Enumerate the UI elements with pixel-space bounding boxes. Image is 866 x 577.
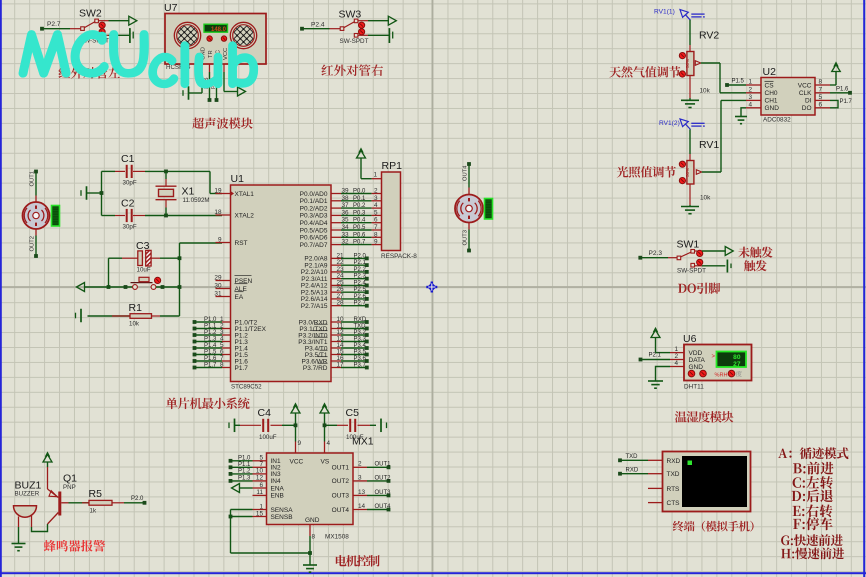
svg-text:11: 11 xyxy=(256,489,263,496)
svg-text:P1.2: P1.2 xyxy=(238,469,251,475)
svg-text:RXD: RXD xyxy=(354,317,367,323)
svg-text:P0.0: P0.0 xyxy=(353,189,366,195)
svg-text:XTAL2: XTAL2 xyxy=(235,212,255,219)
svg-text:C5: C5 xyxy=(346,407,360,419)
svg-text:P2.1: P2.1 xyxy=(649,353,662,359)
svg-text:SW1: SW1 xyxy=(677,239,700,251)
svg-text:P0.5: P0.5 xyxy=(353,225,366,231)
svg-text:VCC: VCC xyxy=(798,82,812,89)
wire MX GND to ground xyxy=(309,536,311,565)
svg-text:C2: C2 xyxy=(121,198,135,210)
svg-text:P3.4: P3.4 xyxy=(354,343,367,349)
U6 pin stubs xyxy=(670,346,684,367)
origin crosshair marker xyxy=(426,282,437,293)
svg-text:SW-SPDT: SW-SPDT xyxy=(340,38,369,45)
svg-text:10uF: 10uF xyxy=(137,267,151,274)
svg-text:OUT1: OUT1 xyxy=(30,171,36,186)
svg-text:%RH: %RH xyxy=(715,372,728,378)
svg-text:TXD: TXD xyxy=(354,324,367,330)
wire oscillator bottom rail xyxy=(102,200,223,218)
ground terminal U7 xyxy=(183,86,189,100)
svg-text:BUZZER: BUZZER xyxy=(15,491,40,498)
virtual terminal (phone sim) xyxy=(648,452,751,512)
svg-text:U7: U7 xyxy=(164,2,178,14)
terminal arrow SW2 xyxy=(129,16,137,25)
svg-text:OUT4: OUT4 xyxy=(463,165,469,181)
svg-text:CH0: CH0 xyxy=(765,90,778,97)
svg-text:80: 80 xyxy=(733,354,741,361)
label hongwai-duiguan-zuo xyxy=(59,67,121,79)
svg-text:8: 8 xyxy=(312,534,316,541)
resistor R5 xyxy=(69,488,147,515)
svg-text:C1: C1 xyxy=(121,153,135,165)
adc U2 ADC0832 xyxy=(746,66,830,124)
U1 P1 pin wires with net labels xyxy=(193,316,231,369)
power terminal VCC rail xyxy=(291,404,300,442)
ultrasonic module U7 HCSR04 xyxy=(156,2,274,71)
svg-text:RESPACK-8: RESPACK-8 xyxy=(381,253,417,260)
svg-text:P1.5: P1.5 xyxy=(732,79,745,85)
motor M2 speed indicator xyxy=(485,199,493,220)
motor M1 speed indicator xyxy=(52,206,60,227)
svg-text:RST: RST xyxy=(235,240,248,247)
U6 display xyxy=(712,352,747,369)
svg-text:VCC: VCC xyxy=(290,459,304,466)
svg-text:7: 7 xyxy=(819,87,823,94)
svg-text:4: 4 xyxy=(327,440,331,447)
wire RV2 wiper to U2 CH0 xyxy=(701,63,746,93)
reset button xyxy=(84,277,180,289)
svg-text:P2.3: P2.3 xyxy=(354,274,367,280)
svg-text:P0.7: P0.7 xyxy=(353,240,366,246)
svg-text:3: 3 xyxy=(748,94,752,101)
svg-text:P1.7: P1.7 xyxy=(235,365,249,372)
ground RV2 xyxy=(681,98,699,108)
svg-text:39: 39 xyxy=(342,188,350,195)
ground RV1 xyxy=(681,205,699,214)
power terminal Q1 xyxy=(43,453,52,468)
wire SW1 lower throw xyxy=(702,265,725,267)
svg-text:P0.4/AD4: P0.4/AD4 xyxy=(300,220,328,227)
motor OUT3/OUT4 xyxy=(455,162,493,252)
svg-text:OUT4: OUT4 xyxy=(332,507,350,514)
U7 distance display xyxy=(204,24,228,32)
svg-text:P2.1: P2.1 xyxy=(354,260,367,266)
svg-text:1: 1 xyxy=(748,79,752,86)
svg-text:RXD: RXD xyxy=(626,467,639,473)
svg-text:IN4: IN4 xyxy=(271,478,282,485)
svg-text:P3.5: P3.5 xyxy=(354,350,367,356)
svg-text:1: 1 xyxy=(259,503,263,510)
svg-text:IN3: IN3 xyxy=(271,471,282,478)
capacitor C3 electrolytic xyxy=(122,240,160,274)
label dianji-kongzhi xyxy=(336,555,380,567)
label chufa xyxy=(744,260,767,271)
U1 P3 pin wires with net labels xyxy=(331,316,369,369)
svg-text:R5: R5 xyxy=(89,488,103,500)
svg-text:P1.3: P1.3 xyxy=(204,337,217,343)
svg-text:30pF: 30pF xyxy=(123,224,137,231)
svg-text:P2.2: P2.2 xyxy=(354,267,367,273)
wires OUT1-OUT4 xyxy=(367,462,391,512)
svg-text:4: 4 xyxy=(674,360,678,367)
sheet border bottom xyxy=(0,572,866,574)
svg-text:OUT1: OUT1 xyxy=(332,465,350,472)
svg-text:3: 3 xyxy=(374,195,378,202)
wire C3 left leg xyxy=(107,258,122,289)
svg-text:OUT3: OUT3 xyxy=(332,493,350,500)
svg-text:P1.7: P1.7 xyxy=(204,363,217,369)
svg-text:P1.5: P1.5 xyxy=(204,350,217,356)
svg-text:P1.1: P1.1 xyxy=(238,462,251,468)
svg-text:P2.6: P2.6 xyxy=(354,294,367,300)
svg-text:8: 8 xyxy=(374,231,378,238)
svg-text:10k: 10k xyxy=(129,321,140,328)
svg-text:4: 4 xyxy=(374,202,378,209)
origin axis lines xyxy=(431,0,433,577)
capacitor C4 xyxy=(240,407,296,441)
wire SW1 upper throw xyxy=(702,250,726,252)
svg-text:P1.6: P1.6 xyxy=(204,356,217,362)
svg-text:P0.4: P0.4 xyxy=(353,218,366,224)
svg-text:EA: EA xyxy=(235,294,244,301)
svg-text:P0.2: P0.2 xyxy=(353,203,366,209)
svg-text:OUT4: OUT4 xyxy=(375,504,392,510)
svg-text:38: 38 xyxy=(342,195,350,202)
svg-text:35: 35 xyxy=(342,217,350,224)
svg-text:32: 32 xyxy=(342,239,350,246)
svg-text:RTS: RTS xyxy=(667,486,681,493)
label hongwai-duiguan-you xyxy=(322,64,384,76)
sensor U6 DHT11 xyxy=(683,333,752,381)
microcontroller U1 STC89C52 xyxy=(231,173,332,390)
svg-text:SENSB: SENSB xyxy=(271,514,293,521)
svg-text:P1.7: P1.7 xyxy=(840,99,853,105)
ground terminal SW3 xyxy=(389,28,392,43)
crystal X1 xyxy=(156,186,210,205)
svg-text:CH1: CH1 xyxy=(765,98,778,105)
label fengmingqi-baojing xyxy=(44,540,106,552)
svg-text:OUT2: OUT2 xyxy=(332,478,350,485)
svg-text:OUT3: OUT3 xyxy=(375,490,392,496)
svg-text:RV1(1): RV1(1) xyxy=(654,9,675,16)
svg-text:TXD: TXD xyxy=(626,454,639,460)
svg-text:OUT3: OUT3 xyxy=(463,230,469,245)
svg-text:P1.4: P1.4 xyxy=(204,343,217,349)
svg-text:ADC0832: ADC0832 xyxy=(763,117,791,124)
switch SW1 xyxy=(638,239,706,275)
ground terminal SW1 xyxy=(727,260,731,273)
svg-text:P1.1: P1.1 xyxy=(204,324,217,330)
svg-text:27: 27 xyxy=(733,361,741,368)
svg-text:P3.2: P3.2 xyxy=(354,330,367,336)
svg-text:2: 2 xyxy=(358,461,362,468)
potentiometer RV2 xyxy=(679,30,719,99)
terminal arrow SW3 xyxy=(388,16,396,25)
svg-text:36: 36 xyxy=(342,209,350,216)
svg-text:RV1: RV1 xyxy=(699,139,719,151)
svg-text:C4: C4 xyxy=(258,407,272,419)
svg-text:U1: U1 xyxy=(231,173,245,185)
svg-text:>: > xyxy=(712,354,716,360)
svg-text:12: 12 xyxy=(256,475,264,482)
power terminal U6 VDD xyxy=(651,328,670,353)
svg-text:P2.3: P2.3 xyxy=(649,250,663,257)
svg-text:2: 2 xyxy=(374,188,378,195)
svg-text:OUT2: OUT2 xyxy=(375,475,392,481)
svg-text:P0.3/AD3: P0.3/AD3 xyxy=(300,213,328,220)
ground buzzer xyxy=(12,544,26,551)
svg-text:TXD: TXD xyxy=(667,471,680,478)
label danpianji-zuixiao-xitong xyxy=(166,397,250,409)
svg-text:3: 3 xyxy=(358,474,362,481)
svg-text:CS: CS xyxy=(765,82,775,89)
svg-text:6: 6 xyxy=(259,482,263,489)
wire U2 CH1 from RV1 wiper xyxy=(721,100,746,172)
svg-text:SENSA: SENSA xyxy=(271,507,294,514)
ground terminal R1 xyxy=(76,309,82,323)
svg-text:P2.5: P2.5 xyxy=(354,287,367,293)
buzzer BUZ1 xyxy=(14,480,42,528)
svg-text:P2.4: P2.4 xyxy=(354,280,367,286)
svg-text:9: 9 xyxy=(218,236,222,243)
wire SW3 lower throw xyxy=(368,34,389,36)
svg-text:P0.6: P0.6 xyxy=(353,232,366,238)
ground U6 xyxy=(648,381,663,388)
label zhongduan-moni-shouji xyxy=(673,521,754,532)
svg-text:STC89C52: STC89C52 xyxy=(231,383,262,390)
wire U2 GND to ground xyxy=(735,108,747,124)
svg-text:Q1: Q1 xyxy=(63,473,77,485)
svg-text:U6: U6 xyxy=(683,333,697,345)
svg-text:DI: DI xyxy=(805,98,812,105)
svg-text:P1.0: P1.0 xyxy=(204,317,217,323)
svg-text:GND: GND xyxy=(305,517,320,524)
terminal RV1(2) xyxy=(659,119,705,130)
terminal RV1(1) top xyxy=(654,9,705,21)
motor OUT1/OUT2 xyxy=(23,170,60,258)
svg-text:P3.7/RD: P3.7/RD xyxy=(303,365,328,372)
svg-text:P1.3: P1.3 xyxy=(238,476,251,482)
wire U2 DI DO to P1.7 xyxy=(830,99,853,108)
svg-text:P2.7: P2.7 xyxy=(354,301,367,307)
svg-text:148.0: 148.0 xyxy=(211,27,227,33)
svg-text:VCC: VCC xyxy=(223,48,229,60)
svg-text:DO: DO xyxy=(802,105,812,112)
svg-text:10: 10 xyxy=(256,468,264,475)
U6 indicator dots xyxy=(684,370,742,390)
svg-text:19: 19 xyxy=(214,187,222,194)
svg-text:13: 13 xyxy=(358,489,366,496)
wire buzzer right to Q1 collector xyxy=(32,524,48,532)
svg-text:P1.6: P1.6 xyxy=(836,87,849,93)
svg-text:P0.7/AD7: P0.7/AD7 xyxy=(300,242,328,249)
wire RV1 wiper xyxy=(702,171,721,173)
svg-text:2: 2 xyxy=(674,353,678,360)
switch SW3 xyxy=(300,9,368,45)
svg-text:U2: U2 xyxy=(763,66,777,78)
terminal arrow U7 VCC xyxy=(238,87,246,96)
svg-text:MX1508: MX1508 xyxy=(325,534,349,541)
sheet border left xyxy=(0,0,2,577)
svg-text:1: 1 xyxy=(373,172,377,179)
svg-text:SW-SPDT: SW-SPDT xyxy=(677,268,706,275)
svg-text:14: 14 xyxy=(358,503,366,510)
svg-text:P3.3: P3.3 xyxy=(354,337,367,343)
potentiometer RV1 xyxy=(679,139,719,205)
terminal arrow SW1 xyxy=(725,247,733,256)
label wei-chufa xyxy=(738,247,772,258)
svg-text:P3.6: P3.6 xyxy=(354,356,367,362)
svg-text:6: 6 xyxy=(374,217,378,224)
svg-text:P0.2/AD2: P0.2/AD2 xyxy=(300,205,328,212)
wire RST rail xyxy=(178,243,222,316)
ground terminal oscillator xyxy=(81,186,87,200)
svg-text:15: 15 xyxy=(256,510,264,517)
svg-text:GND: GND xyxy=(765,105,780,112)
wire SW3 upper throw xyxy=(368,20,389,22)
label wenshidu-mokuai xyxy=(675,411,734,423)
motor driver MX1 MX1508 xyxy=(253,436,374,541)
svg-text:RXD: RXD xyxy=(667,458,681,465)
U1 left pin stubs XTAL RST PSEN ALE EA xyxy=(214,187,234,297)
svg-text:50%: 50% xyxy=(685,168,690,177)
ground terminal SW2 xyxy=(130,28,133,43)
svg-text:P0.1: P0.1 xyxy=(353,196,366,202)
wire P1.5 to U2 CS xyxy=(725,79,746,87)
wire U2 CLK to P1.6 xyxy=(830,87,852,95)
wire P2.1 to U6 DATA xyxy=(639,353,670,362)
wire TXD to terminal RXD xyxy=(618,454,648,462)
capacitor C1 xyxy=(115,153,145,187)
svg-text:30: 30 xyxy=(214,282,222,289)
wire RV1(2) to RV1 xyxy=(689,130,691,161)
svg-text:11.0592M: 11.0592M xyxy=(183,197,210,204)
svg-text:P0.3: P0.3 xyxy=(353,210,366,216)
svg-text:2: 2 xyxy=(748,87,752,94)
svg-text:8: 8 xyxy=(220,362,224,369)
svg-text:MX1: MX1 xyxy=(352,436,374,448)
svg-text:9: 9 xyxy=(374,239,378,246)
svg-text:CTS: CTS xyxy=(667,500,681,507)
label command list A-H xyxy=(778,447,848,559)
svg-text:OUT2: OUT2 xyxy=(30,236,36,251)
svg-text:SW2: SW2 xyxy=(79,8,102,20)
svg-text:P2.7: P2.7 xyxy=(47,21,61,28)
svg-text:9: 9 xyxy=(298,440,302,447)
svg-text:P2.4: P2.4 xyxy=(311,22,325,29)
svg-text:5: 5 xyxy=(374,209,378,216)
switch SW2 xyxy=(40,8,109,45)
svg-text:18: 18 xyxy=(214,209,222,216)
ground terminal C5 xyxy=(370,419,387,433)
svg-text:6: 6 xyxy=(819,102,823,109)
sheet border right xyxy=(863,0,865,577)
svg-text:33: 33 xyxy=(342,231,350,238)
svg-text:CLK: CLK xyxy=(799,90,812,97)
svg-text:10k: 10k xyxy=(700,195,711,202)
svg-text:100uF: 100uF xyxy=(259,434,277,441)
svg-text:P2.7/A15: P2.7/A15 xyxy=(301,303,328,310)
wire RXD to terminal TXD xyxy=(618,467,648,475)
transistor Q1 PNP xyxy=(48,467,78,524)
svg-text:10k: 10k xyxy=(700,88,711,95)
svg-text:RV2: RV2 xyxy=(699,30,719,42)
svg-text:P0.5/AD5: P0.5/AD5 xyxy=(300,227,328,234)
svg-text:P0.6/AD6: P0.6/AD6 xyxy=(300,235,328,242)
svg-text:OUT1: OUT1 xyxy=(375,462,392,468)
capacitor C5 xyxy=(325,407,371,441)
svg-text:P2.0: P2.0 xyxy=(354,253,367,259)
U7 pin indicator dots xyxy=(207,36,212,41)
wire oscillator top rail xyxy=(102,170,223,194)
svg-text:P0.0/AD0: P0.0/AD0 xyxy=(300,191,328,198)
svg-text:P0.1/AD1: P0.1/AD1 xyxy=(300,198,328,205)
resistor pack RP1 RESPACK-8 xyxy=(372,160,418,260)
U1 P2 pin wires with net labels xyxy=(331,252,369,307)
svg-text:P3.7: P3.7 xyxy=(354,363,367,369)
svg-text:R1: R1 xyxy=(129,302,143,314)
capacitor C2 xyxy=(115,198,145,231)
svg-text:7: 7 xyxy=(374,224,378,231)
wire RV1(1) to RV2 xyxy=(689,20,691,52)
svg-text:P1.0: P1.0 xyxy=(238,455,251,461)
label DO-yinjiao xyxy=(678,283,720,295)
U7 pin wires xyxy=(189,64,238,102)
svg-text:17: 17 xyxy=(337,362,345,369)
label guangzhao-zhi-tiaojie xyxy=(617,166,676,178)
ground terminal C4 xyxy=(229,419,240,433)
svg-text:28: 28 xyxy=(337,300,345,307)
svg-text:ENB: ENB xyxy=(271,493,284,500)
svg-text:XTAL1: XTAL1 xyxy=(235,191,255,198)
wire C3 right to RST rail xyxy=(160,256,181,260)
svg-text:VDD: VDD xyxy=(689,350,703,357)
wires P1.0-P1.3 to MX inputs xyxy=(229,455,253,482)
svg-text:X1: X1 xyxy=(182,186,195,198)
power terminal VS rail xyxy=(320,404,329,442)
terminal arrow reset xyxy=(77,283,85,292)
power terminal RP1 pin1 xyxy=(357,149,372,179)
terminal arrow ENA xyxy=(232,484,253,493)
svg-text:8: 8 xyxy=(819,79,823,86)
wire SW2 lower throw xyxy=(109,34,130,36)
svg-text:VS: VS xyxy=(321,459,330,466)
wires SENSA SENSB loop xyxy=(229,510,312,555)
svg-text:31: 31 xyxy=(214,290,222,297)
svg-text:1k: 1k xyxy=(90,508,97,515)
svg-text:4: 4 xyxy=(748,102,752,109)
svg-text:37: 37 xyxy=(342,202,350,209)
ground MX1508 xyxy=(303,565,317,572)
label tianranqi-zhi-tiaojie xyxy=(609,66,680,78)
svg-text:P1.2: P1.2 xyxy=(204,330,217,336)
label chaoshengbo-mokuai xyxy=(192,118,253,129)
svg-text:29: 29 xyxy=(214,274,222,281)
svg-text:5: 5 xyxy=(819,94,823,101)
svg-text:RP1: RP1 xyxy=(382,160,403,172)
power terminal U2 VCC xyxy=(830,63,840,86)
svg-text:DATA: DATA xyxy=(689,357,706,364)
wire buzzer left to ground xyxy=(18,527,20,544)
svg-text:PNP: PNP xyxy=(63,484,76,491)
svg-text:TR: TR xyxy=(208,50,214,58)
wire oscillator left rail xyxy=(87,171,103,215)
wire U6 GND to ground xyxy=(656,367,671,382)
svg-text:34: 34 xyxy=(342,224,350,231)
svg-text:P2.0: P2.0 xyxy=(131,496,144,502)
watermark MCUclub xyxy=(20,31,257,87)
